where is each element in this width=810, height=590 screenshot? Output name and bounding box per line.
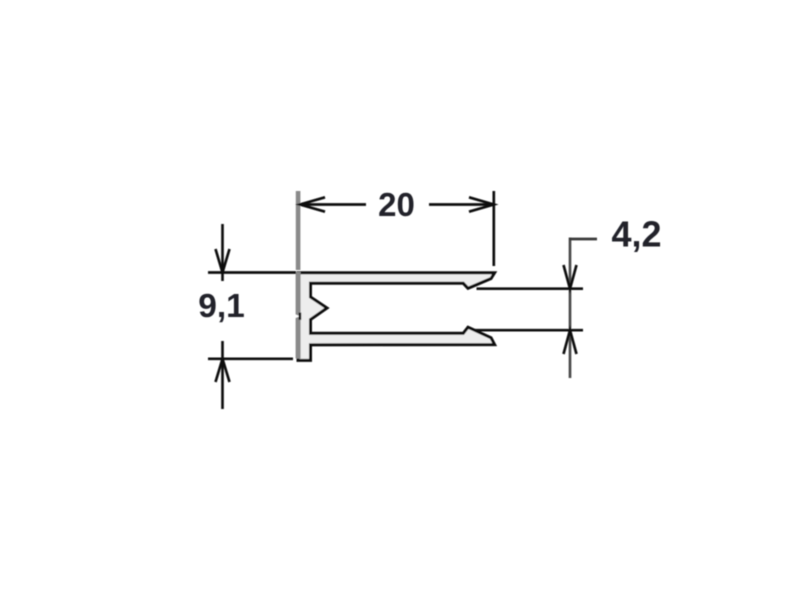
dimension 20: right arrowhead — [469, 197, 494, 211]
dimension 20: dimension line left segment — [300, 203, 366, 206]
svg-text:20: 20 — [378, 186, 415, 223]
dimension 20: dimension line right segment — [429, 203, 493, 206]
dimension 20: right extension line — [492, 191, 495, 266]
dimension 9,1: top extension line — [208, 271, 296, 274]
profile body (U-channel cross-section, light gray material fill) — [298, 273, 495, 361]
dimension 4,2: leader line to label — [569, 238, 597, 241]
dimension 4,2: bottom extension line — [475, 329, 584, 332]
dimension 9,1: bottom extension line — [208, 357, 293, 360]
dimension 9,1: dimension line lower segment — [221, 341, 224, 409]
dimension 20: left extension line (gray) — [296, 191, 301, 270]
dimension 20: left arrowhead — [300, 197, 325, 211]
svg-text:9,1: 9,1 — [198, 288, 245, 325]
profile outer V-notch at mid height — [294, 313, 302, 320]
dimension 9,1: dimension line upper segment — [221, 224, 224, 281]
dimension 4,2: vertical dimension line — [569, 238, 572, 379]
dimension 4,2: lower arrowhead (pointing up) — [564, 330, 577, 354]
dimension 9,1: top arrowhead (pointing down) — [216, 249, 230, 273]
dimension 4,2: upper arrowhead (pointing down) — [564, 265, 577, 289]
dimension 9,1: bottom arrowhead (pointing up) — [216, 359, 230, 382]
svg-text:4,2: 4,2 — [611, 214, 661, 255]
dimension 4,2: top extension line — [477, 287, 584, 290]
profile left outer face (gray edge) — [296, 272, 301, 359]
